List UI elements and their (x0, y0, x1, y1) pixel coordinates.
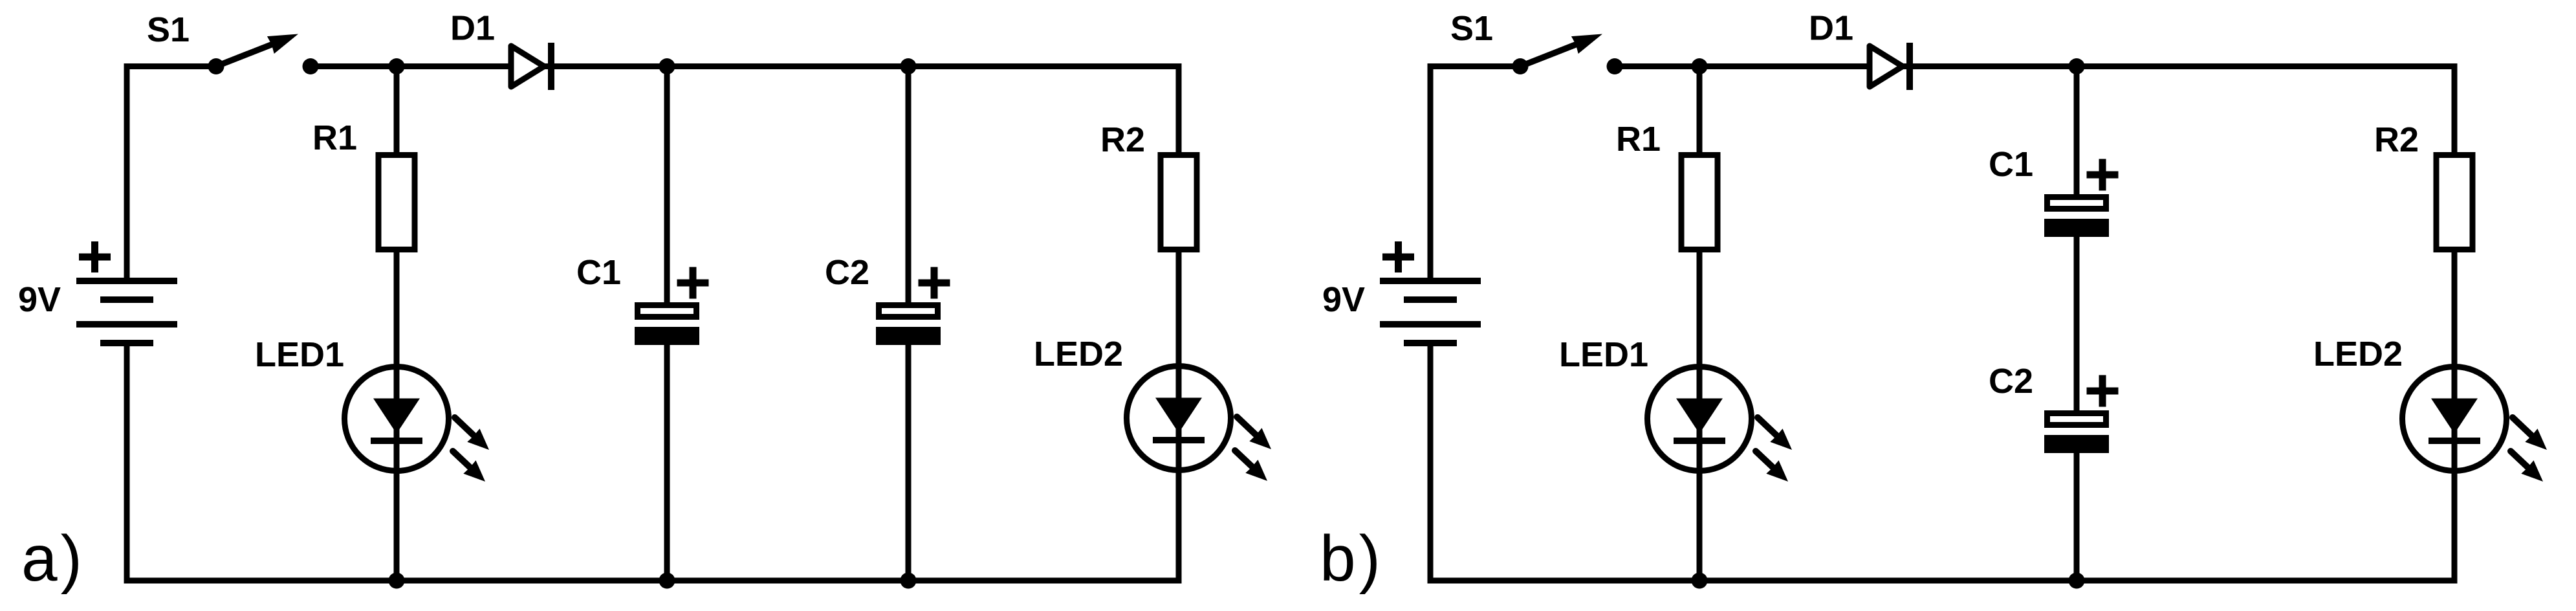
node: bottom junction C1 branch (circuit a) (659, 573, 675, 589)
wire: C branch upper (circuit b) (2074, 67, 2080, 201)
wire: C2 branch lower (circuit a) (906, 337, 911, 581)
capacitor C2 (circuit b) (2044, 375, 2119, 454)
svg-text:a): a) (21, 522, 85, 595)
node: top junction C1 branch (circuit a) (659, 58, 675, 74)
wire: R2 to bottom-right corner, bottom rail, up to battery negative (circuit b) (1430, 249, 2454, 581)
wire: switch S1 to top-right corner down to R2 (circuit a) (311, 67, 1179, 156)
svg-text:C1: C1 (1989, 145, 2033, 184)
LED LED2 (circuit b) (2403, 367, 2548, 482)
node: top junction R1 branch (circuit a) (389, 58, 405, 74)
svg-text:R2: R2 (1100, 120, 1145, 159)
svg-text:D1: D1 (450, 9, 495, 48)
wire: battery positive to top-left corner to switch S1 (circuit b) (1430, 67, 1520, 282)
svg-text:S1: S1 (1450, 9, 1493, 48)
wire: C1 branch upper (circuit a) (664, 67, 670, 311)
svg-text:C2: C2 (825, 253, 869, 292)
svg-text:LED1: LED1 (1559, 335, 1648, 374)
wire: C2 branch upper (circuit a) (906, 67, 911, 311)
svg-text:LED2: LED2 (1034, 335, 1123, 373)
node: bottom junction capacitor branch (circuit b) (2069, 573, 2085, 589)
node: top junction C2 branch (circuit a) (901, 58, 917, 74)
svg-text:S1: S1 (147, 10, 190, 49)
svg-text:D1: D1 (1809, 9, 1853, 48)
svg-text:R2: R2 (2374, 120, 2419, 159)
resistor R2 (circuit a) (1161, 155, 1197, 250)
LED LED1 (circuit b) (1648, 367, 1793, 482)
node: top junction R1 branch (circuit b) (1692, 58, 1708, 74)
wire: switch S1 to top-right corner down to R2 (circuit b) (1615, 67, 2454, 156)
diode D1 (circuit a) (511, 43, 551, 90)
node: bottom junction LED1 branch (circuit a) (389, 573, 405, 589)
wire: R2 to bottom-right corner, bottom rail, up to battery negative (circuit a) (127, 249, 1179, 581)
svg-text:C1: C1 (576, 253, 621, 292)
wire: R1 / LED1 branch (circuit a) (394, 67, 400, 581)
svg-text:LED2: LED2 (2313, 335, 2403, 373)
LED LED1 (circuit a) (345, 367, 490, 482)
svg-text:C2: C2 (1989, 362, 2033, 401)
capacitor C1 (circuit b) (2044, 159, 2119, 238)
battery 9V (circuit b) (1380, 241, 1481, 343)
battery 9V (circuit a) (76, 241, 177, 343)
switch S1 (circuit b) (1512, 34, 1623, 75)
capacitor C2 (circuit a) (876, 267, 950, 346)
capacitor C1 (circuit a) (635, 267, 709, 346)
wire: R1 / LED1 branch (circuit b) (1697, 67, 1703, 581)
resistor R1 (circuit a) (378, 155, 415, 250)
wire: C branch lower (circuit b) (2074, 440, 2080, 581)
node: bottom junction LED1 branch (circuit b) (1692, 573, 1708, 589)
switch S1 (circuit a) (208, 34, 319, 75)
resistor R1 (circuit b) (1681, 155, 1718, 250)
svg-text:R1: R1 (312, 118, 357, 157)
wire: C branch between C1 and C2 (circuit b) (2074, 227, 2080, 417)
svg-text:LED1: LED1 (255, 335, 344, 374)
svg-text:9V: 9V (18, 280, 61, 319)
diode D1 (circuit b) (1870, 43, 1910, 90)
wire: C1 branch lower (circuit a) (664, 337, 670, 581)
svg-text:b): b) (1320, 522, 1384, 595)
node: top junction capacitor branch (circuit b) (2069, 58, 2085, 74)
resistor R2 (circuit b) (2436, 155, 2472, 250)
svg-text:9V: 9V (1322, 280, 1365, 319)
wire: battery positive to top-left corner to switch S1 (circuit a) (127, 67, 216, 282)
svg-text:R1: R1 (1616, 120, 1661, 159)
LED LED2 (circuit a) (1127, 366, 1272, 482)
node: bottom junction C2 branch (circuit a) (901, 573, 917, 589)
